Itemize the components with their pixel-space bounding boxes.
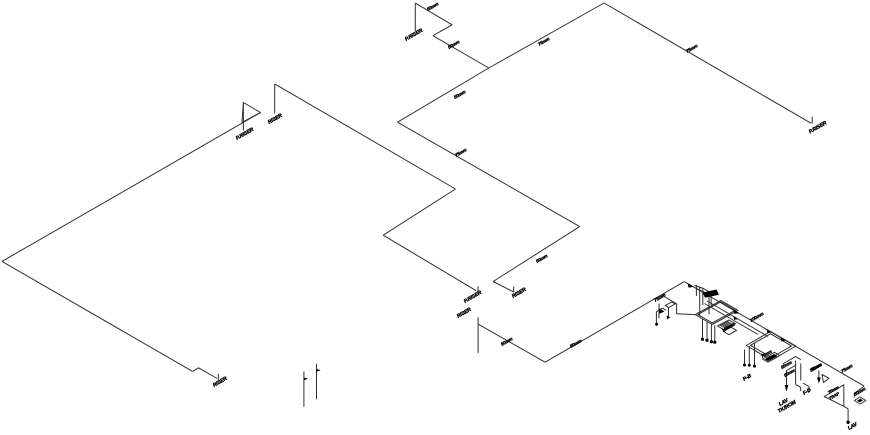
wire riser to V4 [479, 324, 546, 362]
wire V3 to riser tick [493, 282, 514, 293]
wc tank hatch [720, 321, 734, 329]
tall frame vertical 4 [710, 293, 712, 306]
right platform leg 2 [748, 346, 750, 365]
arrow on feed line 2 [734, 316, 739, 319]
wire R1 to elbow [275, 84, 456, 189]
left trap drop [655, 312, 657, 324]
frame foot 2 [705, 339, 708, 342]
tall frame top edge 1 [695, 286, 712, 293]
CLUSTER [656, 286, 865, 422]
right platform leg 1 [744, 350, 746, 365]
tick right P.RISER [811, 117, 813, 124]
wc right hatch [857, 399, 863, 403]
lav triangle [824, 385, 844, 407]
left fixture drop [668, 308, 670, 317]
wire cluster feed line 3 [705, 304, 759, 335]
right platform leg 3 [754, 343, 756, 366]
tall frame top edge 2 [696, 288, 710, 295]
right platform inner rim [751, 334, 792, 358]
right branch flag [822, 375, 829, 383]
wire jog at left branch end [193, 368, 218, 379]
wire V2 to V3 [493, 227, 580, 282]
arrow blob riser A [304, 378, 308, 381]
wire F2 to junction J1 [433, 36, 489, 68]
frame foot 1 [701, 338, 704, 341]
right platform foot 1 [743, 364, 746, 367]
right branch arrowhead [817, 378, 821, 384]
right platform foot 2 [748, 364, 751, 367]
riser flag F2 zigzag [415, 3, 452, 36]
wire J1 to peak [489, 3, 604, 68]
trap blob left [659, 308, 665, 314]
center bottom fixture diag [783, 357, 801, 364]
vertical riser mid-low [477, 317, 479, 353]
foot dot left trap [655, 323, 658, 326]
center bottom fixture vertical 1 [795, 361, 797, 385]
frame foot 4 [713, 341, 716, 344]
riser R1 vertical [274, 84, 276, 114]
wire to P.RISER tick [383, 235, 476, 291]
wc tank outer [718, 320, 736, 330]
wire peak to right P.RISER [604, 3, 811, 123]
platform leg 1 [702, 319, 704, 339]
left trap vertical 1 [658, 304, 660, 319]
center fixture hatch [765, 354, 778, 361]
tick P.RISER [477, 286, 479, 291]
right platform foot 3 [753, 365, 756, 368]
wire cluster feed line 2 [707, 301, 768, 337]
left trap connector [656, 308, 666, 312]
wire collector end turn [854, 386, 864, 397]
wire elbow back segment [383, 189, 455, 235]
center fixture elbow [796, 384, 801, 391]
center drop arrowhead [785, 385, 789, 392]
lav foot dot [846, 421, 849, 424]
arrow on collector 2 [734, 310, 740, 314]
tall frame vertical 2 [702, 288, 704, 305]
fd elbow [803, 383, 809, 391]
foot dot left fixture [667, 315, 671, 319]
lav connector [844, 406, 848, 409]
center bottom fixture top [763, 352, 781, 362]
platform leg 2 [706, 321, 708, 340]
tick riser mid [513, 287, 515, 293]
right platform outer rim [746, 331, 796, 360]
center fixture drop [786, 371, 788, 390]
center bottom fixture diag2 [787, 365, 796, 370]
riser flag F1 triangle [242, 103, 261, 123]
platform leg 4 [714, 325, 716, 342]
center bottom fixture vertical 2 [800, 364, 802, 381]
riser flag F1 vertical [242, 102, 244, 130]
standalone riser A [303, 371, 305, 406]
right branch drop [818, 371, 820, 381]
frame hatch blob [703, 290, 720, 298]
platform leg 3 [710, 323, 712, 341]
wire V1 to V2 [398, 122, 580, 226]
frame foot 3 [710, 340, 713, 343]
platform inner rim [698, 302, 736, 323]
arrow on collector entry [688, 283, 694, 287]
wire main collector C1 [684, 282, 864, 387]
tall frame vertical 1 [699, 287, 701, 317]
wire J1 down to V1 [398, 68, 489, 122]
frame extra vertical [695, 285, 697, 296]
wire left branch down [2, 261, 193, 371]
riser flag F2 vertical [414, 3, 416, 31]
arrow blob riser B [317, 369, 321, 372]
left fixture parallelogram [665, 302, 675, 308]
standalone riser B [316, 364, 318, 399]
wire main vent line to flag F1 [2, 113, 261, 262]
arrow on collector 3 [767, 329, 773, 333]
wire V4 up to cluster [545, 282, 684, 363]
wc right parallelogram [854, 397, 866, 404]
arrow on collector 4 [781, 337, 787, 341]
lav drop [847, 409, 849, 422]
tick riser end [217, 374, 219, 381]
wire cluster lower left branch [663, 296, 696, 315]
tall frame vertical 3 [708, 291, 710, 315]
wc tank lower outline [724, 327, 737, 335]
platform outer rim [695, 301, 738, 325]
